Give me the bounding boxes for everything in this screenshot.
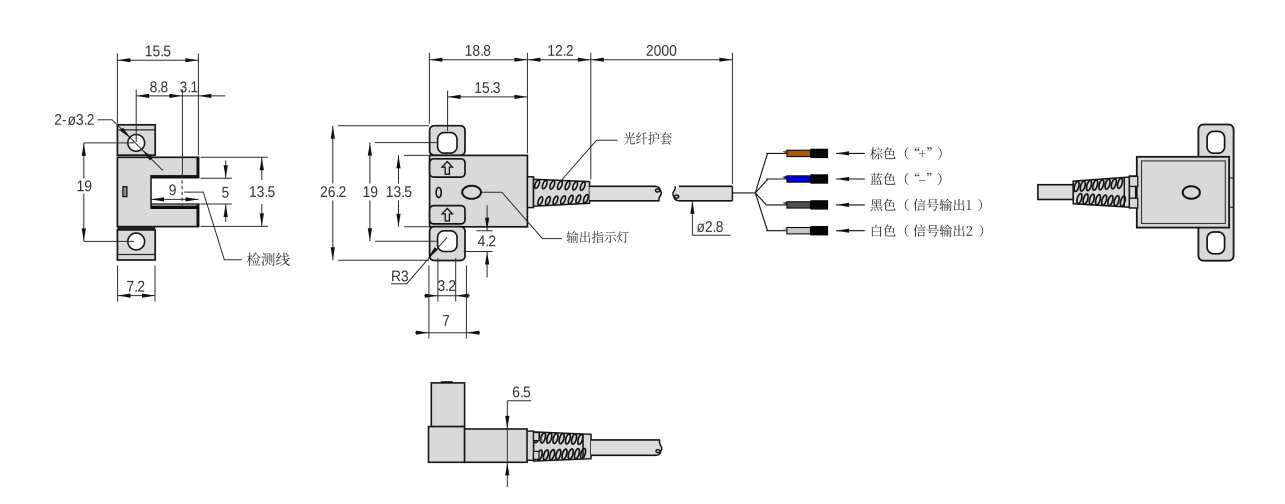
dim 12.2 line and arrows — [527, 59, 590, 61]
dim text 26.2 front — [321, 186, 346, 197]
left view: top tab step line — [117, 129, 155, 131]
front view: indicator box 2 — [430, 206, 465, 224]
dim text 12.2 — [548, 45, 573, 56]
wire 2 black terminal — [810, 174, 828, 183]
wire 4 black terminal — [810, 226, 828, 235]
wire 4 label text — [872, 225, 983, 237]
dim text 3.1 — [180, 81, 197, 92]
dim 19 extension lines — [84, 142, 134, 144]
left view: body/tab junction dark band — [117, 226, 155, 229]
wire 3 label text — [870, 199, 982, 211]
dim text 13.5 front — [387, 186, 412, 197]
wire 1 black terminal — [810, 149, 828, 158]
bottom view: fiber sheath — [534, 432, 592, 461]
dim 6.5 through line — [506, 429, 508, 462]
dim 13.5 front extension lines — [404, 154, 429, 156]
left view: side window detail — [123, 187, 127, 197]
dim 13.5 line segments — [261, 157, 263, 180]
dim 15.5 extension lines — [116, 54, 118, 124]
dim text 6.5 — [513, 386, 530, 397]
wire 3 colored sleeve — [787, 202, 811, 208]
dim 15.3 line and arrows — [448, 96, 528, 98]
dim text 5 — [222, 187, 229, 198]
left view: slot bottom optical band — [151, 206, 199, 209]
rear view: collar — [1129, 176, 1135, 208]
left view: body right edge thick — [196, 157, 198, 226]
rear view: collar latch top — [1129, 176, 1137, 186]
wire 3 lead line — [766, 204, 787, 206]
dim 26.2 extension lines — [338, 125, 429, 127]
label 检测线 text — [247, 253, 290, 267]
dim text 2000 — [647, 45, 677, 56]
left view: slot inner end wall — [150, 175, 152, 209]
dim 4.2 extension lines — [476, 230, 492, 232]
dim 3.2 line and outside arrows — [424, 295, 470, 297]
front view: small 0 marker — [436, 188, 441, 198]
dim 5 arrows outside — [225, 160, 227, 178]
label 检测线 leader — [184, 192, 242, 260]
wire 4 insulation taper — [782, 228, 787, 232]
dim 19 front extension lines — [375, 142, 437, 144]
bottom view: cable outline — [591, 439, 660, 441]
wire 3 black terminal — [810, 200, 828, 209]
left view: top mounting hole 3.2mm — [128, 135, 145, 152]
dim 6.5 leader top — [507, 400, 531, 402]
dim text 7.2 — [127, 281, 144, 292]
label R3 leader — [391, 283, 407, 285]
left view: slot top optical band — [151, 175, 199, 178]
dim 2000 line and arrows — [591, 59, 733, 61]
dim text Ø2.8 — [697, 221, 723, 232]
bottom view: collar — [527, 431, 533, 460]
label 2-Ø3.2 — [55, 114, 94, 125]
rear view: bottom hole — [1207, 232, 1225, 254]
left view: bottom mounting hole 3.2mm — [128, 233, 145, 250]
wire 1 label text — [870, 147, 942, 160]
label 2-Ø3.2 leader — [98, 119, 113, 121]
bottom view: collar latch bottom — [534, 451, 540, 459]
front view: cable segment 1 body — [590, 186, 662, 201]
label 输出指示灯 leader — [481, 192, 562, 238]
bottom view: sheath end cap line — [582, 434, 584, 459]
dim text 3.2 — [438, 280, 455, 291]
wire 2 label text — [870, 173, 941, 186]
wire 3 arrow — [836, 204, 865, 206]
bottom view: plate upright — [431, 383, 464, 427]
dim 6.5 arrow bottom — [506, 462, 508, 487]
dim 8.8 extension line — [135, 89, 137, 142]
rear view: body inner line — [1142, 161, 1226, 224]
dim 18.8 line and arrows — [429, 59, 527, 61]
rear view: sheath end cap line — [1123, 177, 1125, 207]
dim 5 extension lines — [201, 177, 232, 179]
detection centerline dashed — [181, 174, 183, 207]
wire 4 arrow — [836, 230, 865, 232]
dim 7 line and outside arrows — [415, 332, 480, 334]
bottom view: body — [465, 429, 527, 462]
dim Ø2.8 leader — [691, 201, 693, 235]
front view: up arrow mark 1 — [442, 162, 452, 175]
wire 1 arrow — [836, 152, 865, 154]
rear view: plate step ticks — [1229, 177, 1234, 179]
dim text 18.8 — [466, 45, 491, 56]
dim text 15.5 — [146, 46, 171, 57]
front view: cable segment 1 outline — [590, 185, 657, 187]
dim text 8.8 — [150, 81, 167, 92]
left view: bottom tab step line — [117, 254, 155, 256]
front view: cable segment 2 body — [673, 186, 732, 201]
rear view: sheath coils — [1073, 181, 1080, 192]
bottom view: plate foot — [429, 427, 465, 463]
rear view: fiber sheath — [1073, 177, 1129, 207]
dim 13.5 extension lines — [201, 156, 269, 158]
dim 18.8/12.2/2000 extension lines — [428, 53, 430, 124]
dim 7 extension lines — [428, 266, 430, 339]
front view: cable collar — [527, 177, 533, 208]
dim 3.2 extension lines — [437, 258, 439, 302]
wire 2 insulation taper — [782, 176, 787, 180]
front view: plate bottom tab — [430, 227, 465, 261]
dim text 7 — [443, 315, 449, 326]
wire 4 colored sleeve — [787, 228, 811, 234]
dim 7.2 line and arrows — [118, 295, 155, 297]
front view: flexible fiber sheath — [534, 179, 590, 206]
wire fan lines — [755, 153, 768, 193]
front view: top mounting hole — [438, 133, 457, 154]
rear view: mounting plate with tabs — [1198, 125, 1233, 261]
rear view: collar latch bottom — [1129, 198, 1137, 208]
dim 3.1 line and outside arrow — [182, 95, 198, 97]
dim 15.3 extension line — [447, 91, 449, 131]
front view: bottom mounting hole — [438, 231, 457, 252]
wire 2 lead line — [766, 178, 787, 180]
label R3 text — [392, 271, 408, 282]
wire 3 insulation taper — [782, 202, 787, 206]
dim 13.5 front line segments — [398, 155, 400, 183]
dim 3.1 extension line — [181, 89, 183, 174]
dim text 15.3 — [475, 82, 500, 93]
dim text 9 — [169, 184, 175, 195]
rear view: body — [1137, 157, 1229, 228]
dim 26.2 line segments — [332, 126, 334, 184]
label 光纤护套 text — [624, 132, 672, 145]
wire 4 lead line — [766, 230, 787, 232]
front view: indicator box 1 — [430, 159, 465, 177]
left view: mounting plate bottom tab — [117, 230, 155, 260]
dim 9 line and arrows — [151, 198, 199, 200]
dim text 19 — [78, 180, 92, 191]
dim 8.8 line and arrows — [136, 95, 182, 97]
bottom view: collar latch top — [534, 433, 540, 441]
bottom view: sheath coils — [533, 432, 540, 443]
rear view: top hole — [1207, 131, 1225, 153]
wire 2 colored sleeve — [787, 176, 811, 182]
wire 1 insulation taper — [782, 150, 787, 154]
front view: output indicator ellipse — [462, 186, 481, 199]
dim 4.2 arrows — [486, 205, 488, 231]
dim text 19 front — [364, 186, 378, 197]
left view: mounting plate top tab — [117, 125, 155, 155]
wire 1 lead line — [766, 152, 787, 154]
left view: slot bottom edge line — [151, 203, 200, 205]
dim text 13.5 — [250, 186, 275, 197]
left view: U slot interior — [151, 179, 200, 205]
wire 2 arrow — [836, 178, 865, 180]
dim 7.2 extension lines — [117, 266, 119, 302]
front view: plate top tab — [430, 126, 465, 156]
wire 1 colored sleeve — [787, 150, 811, 156]
dim 15.5 line and arrows — [117, 59, 198, 61]
label 光纤护套 leader — [562, 140, 618, 179]
bottom view: cable body — [591, 440, 662, 455]
bottom view: slot dark strip — [441, 381, 453, 383]
rear view: cable — [1038, 185, 1073, 200]
dim 19 front line segments — [369, 143, 371, 184]
rear view: center ellipse — [1183, 186, 1200, 199]
label 输出指示灯 text — [567, 231, 629, 243]
dim 19 line segments — [83, 143, 85, 179]
wire fan stub — [732, 192, 755, 194]
front view: sheath coil pattern — [534, 179, 541, 189]
front view: cable segment 2 outline — [679, 185, 733, 187]
front view: sensor body — [430, 155, 528, 226]
dim text 4.2 — [478, 236, 496, 247]
front view: up arrow mark 2 — [442, 208, 452, 221]
left view: sensor body — [117, 157, 198, 226]
